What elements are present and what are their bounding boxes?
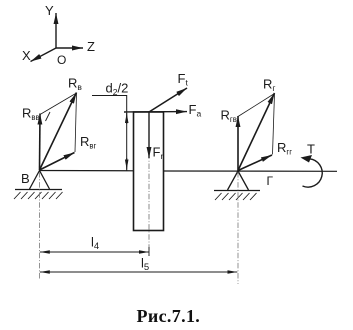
svg-text:Ft: Ft (178, 71, 189, 88)
svg-text:Rвв: Rвв (22, 106, 40, 123)
svg-text:Рис.7.1.: Рис.7.1. (137, 306, 201, 326)
svg-text:X: X (22, 48, 31, 63)
svg-text:Rгг: Rгг (277, 140, 292, 157)
svg-text:Rг: Rг (263, 77, 276, 94)
svg-text:l4: l4 (91, 235, 99, 253)
svg-text:Rвг: Rвг (80, 134, 97, 151)
svg-text:Z: Z (87, 39, 95, 54)
svg-text:Rв: Rв (68, 76, 82, 93)
svg-text:O: O (57, 53, 66, 67)
svg-text:Fa: Fa (189, 102, 202, 119)
svg-text:T: T (307, 142, 315, 157)
svg-text:l5: l5 (141, 256, 149, 274)
svg-text:Y: Y (45, 3, 54, 18)
svg-text:Г: Г (267, 174, 274, 188)
svg-text:d2/2: d2/2 (106, 81, 129, 98)
svg-text:В: В (21, 171, 30, 186)
svg-text:Rгв: Rгв (221, 108, 237, 125)
